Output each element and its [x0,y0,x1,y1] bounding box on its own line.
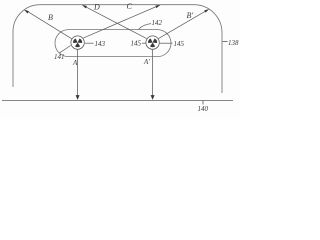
svg-text:D: D [93,3,100,12]
leader curve for 142 [139,24,151,30]
wire arrow A (down from left fan) [77,50,79,96]
wire arrow B [26,10,72,39]
enclosure outline 138 [13,5,222,93]
leader curve for 141 [59,46,71,54]
duct stadium 141/142 [55,30,171,57]
wire arrow B' [158,10,207,39]
leader dash for 145 left [142,42,146,44]
fan circle left 143 [71,36,84,49]
leader dash for 138 [223,41,228,43]
svg-text:B': B' [187,11,194,20]
svg-text:B: B [48,13,53,22]
svg-text:142: 142 [152,19,163,27]
svg-text:143: 143 [95,40,106,48]
wire arrow A' (down from right fan) [152,50,154,96]
tick for label 140 [202,101,204,105]
svg-text:145: 145 [174,40,185,48]
svg-text:A: A [72,59,78,67]
svg-text:A': A' [143,58,150,66]
svg-text:141: 141 [54,53,65,61]
fan circle right 145 [146,36,159,49]
svg-text:145: 145 [131,40,142,48]
leader dash for 143 [85,42,93,44]
ground line 140 [2,100,233,102]
leader dash for 145 right [160,42,173,44]
wire arrow D [84,6,147,39]
fan blades left [73,38,82,47]
wire arrow C [83,6,159,39]
svg-text:138: 138 [228,39,239,47]
svg-text:140: 140 [198,105,209,113]
svg-text:C: C [127,2,133,11]
fan blades right [148,38,157,47]
